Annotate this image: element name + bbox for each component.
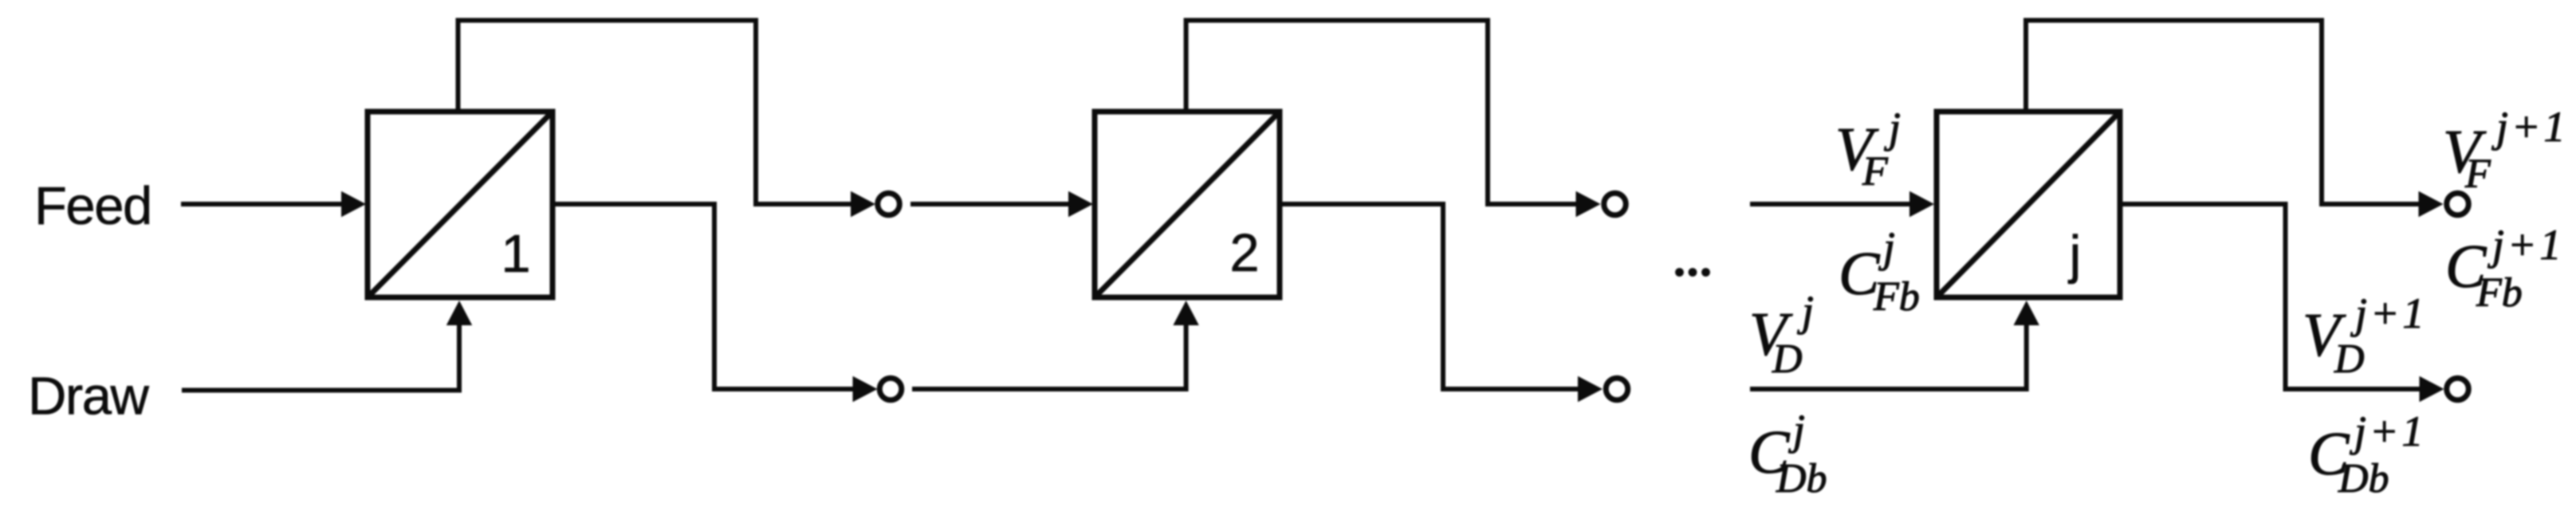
arrowhead into node F3 <box>2419 191 2444 217</box>
svg-text:F: F <box>1862 149 1889 195</box>
arrowhead draw up into box 1 <box>446 301 472 325</box>
node D2 circle <box>1606 378 1628 400</box>
svg-text:Fb: Fb <box>1873 274 1920 320</box>
node F3 circle <box>2447 193 2469 215</box>
wire feed input of stage j <box>1750 202 1910 206</box>
node D1 circle <box>879 378 902 400</box>
svg-text:j: j <box>1878 223 1895 271</box>
wire node F1 to box2 feed input <box>910 202 1072 206</box>
label CDbj <box>1748 406 1827 501</box>
wire box1 draw output to node D1 <box>553 204 854 389</box>
svg-text:F: F <box>2464 151 2491 197</box>
svg-text:2: 2 <box>1229 223 1259 283</box>
label CFbj <box>1839 223 1920 320</box>
svg-text:Feed: Feed <box>34 176 151 236</box>
svg-text:j+1: j+1 <box>2350 289 2427 337</box>
wire draw input of stage j <box>1750 325 2027 389</box>
label CFbj1 <box>2445 221 2564 316</box>
wire node D1 to box2 draw input <box>912 325 1186 389</box>
arrowhead into node D1 <box>853 376 878 402</box>
svg-text:D: D <box>1772 336 1803 382</box>
node F2 circle <box>1604 193 1626 215</box>
svg-text:j+1: j+1 <box>2350 407 2426 455</box>
node D3 circle <box>2447 378 2469 400</box>
svg-text:1: 1 <box>501 224 530 284</box>
svg-text:j+1: j+1 <box>2491 103 2568 151</box>
diagonal of box 2 <box>1095 112 1280 297</box>
wire box1 top tap to node F1 <box>458 21 853 205</box>
arrowhead into node D3 <box>2420 376 2444 402</box>
svg-text:D: D <box>2334 336 2365 382</box>
diagonal of box j <box>1937 112 2120 297</box>
wire box2 top tap to node F2 <box>1186 21 1577 205</box>
dots ellipsis <box>1675 268 1684 277</box>
wire draw input <box>182 325 459 391</box>
svg-text:j: j <box>1884 104 1901 151</box>
box stage j <box>1937 112 2120 297</box>
label VFj <box>1835 104 1901 195</box>
diagonal of box 1 <box>368 112 553 297</box>
svg-text:Fb: Fb <box>2476 270 2523 316</box>
wire box2 draw output to node D2 <box>1280 204 1579 389</box>
box stage 2 <box>1095 112 1280 297</box>
arrowhead feed into box j <box>1909 191 1934 217</box>
svg-text:j: j <box>1797 287 1814 335</box>
wire box j top tap to node F3 <box>2026 21 2420 205</box>
svg-text:Db: Db <box>2338 456 2389 501</box>
label VDj1 <box>2303 289 2427 382</box>
arrowhead feed into box 2 <box>1068 191 1093 217</box>
svg-text:j+1: j+1 <box>2488 221 2564 269</box>
arrowhead feed into box 1 <box>341 191 366 217</box>
svg-text:j: j <box>1788 406 1805 454</box>
box stage 1 <box>368 112 553 297</box>
wire box j draw output to node D3 <box>2120 204 2421 389</box>
node F1 circle <box>878 193 900 215</box>
arrowhead into node F2 <box>1576 191 1601 217</box>
arrowhead into node D2 <box>1578 376 1603 402</box>
arrowhead draw up into box 2 <box>1173 301 1198 325</box>
svg-text:j: j <box>2068 225 2082 285</box>
label VFj1 <box>2443 103 2568 197</box>
label CDbj1 <box>2308 407 2426 501</box>
svg-text:Draw: Draw <box>28 367 149 427</box>
arrowhead into node F1 <box>851 191 875 217</box>
label VDj <box>1749 287 1814 382</box>
svg-text:Db: Db <box>1776 456 1827 501</box>
wire feed input <box>181 202 346 206</box>
arrowhead draw up into box j <box>2014 301 2039 325</box>
